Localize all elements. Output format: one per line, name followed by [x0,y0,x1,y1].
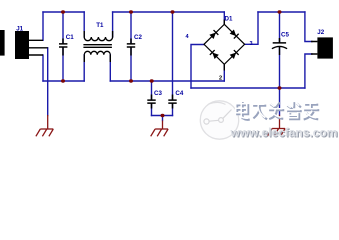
svg-text:C3: C3 [154,90,162,97]
wire C3 vertical top [151,81,153,100]
svg-text:J1: J1 [16,25,23,32]
wire J1 pin3 drop [42,55,44,81]
wire top bus C [258,11,305,13]
diode top-left [209,30,218,39]
wire C3 vertical bottom [151,103,153,115]
bridge rectifier D1 [186,16,253,82]
wire T1 primary bottom lead [83,55,85,81]
svg-text:T1: T1 [96,22,104,29]
wire ground rail [191,87,305,89]
wire ground2 stem blue [162,116,164,121]
wire C5 vertical bottom [279,48,281,115]
wire C1 vertical top [62,12,64,44]
transformer T1 [83,31,112,62]
capacitor C5 polarized [272,31,290,55]
wire J1 pin1 riser [42,12,44,40]
capacitor C1 [59,34,74,56]
watermark logo circle [200,101,238,139]
node bus A / C1 [61,10,65,13]
ground 2 (under C3 C4) [151,121,168,137]
connector J2 [311,29,333,59]
wire T1 primary top lead [83,12,85,37]
wire C4 vertical bottom [172,103,174,115]
ground 3 (under C5) [268,115,285,136]
wire C2 vertical bottom [130,47,132,81]
watermark url text [230,125,339,140]
wire ground1 stem blue [47,81,49,116]
wire C5 vertical top [279,12,281,43]
diode top-right [229,29,238,38]
wire bridge bottom drop [223,64,225,81]
wire bridge left stub riser [191,45,204,89]
wire C2 vertical top [130,12,132,44]
wire C3 C4 bottom join [152,115,173,117]
wire T1 secondary top lead riser [112,12,114,37]
wire J2 pin2 return [305,54,312,88]
wire bottom bus middle [110,80,224,82]
svg-text:C5: C5 [281,31,289,38]
wire top bus A [43,11,84,13]
svg-text:C4: C4 [175,90,183,97]
wire J2 pin1 feed [305,12,312,42]
wire bridge right stub [245,12,258,44]
node rail / C5 [278,86,282,89]
capacitor C2 [127,34,143,56]
node bottom bus / C2 [129,79,133,82]
svg-text:J2: J2 [317,29,324,36]
node bus C / C5 [278,10,282,13]
watermark text dianzifashaoyou (faux glyph strokes) [236,102,319,120]
wire C4 vertical from top bus [172,12,174,100]
connector J1 [15,25,48,59]
scan artifact bar left edge [0,30,5,56]
diode bottom-right [229,50,238,59]
svg-text:2: 2 [219,76,222,82]
svg-text:3: 3 [250,41,253,47]
node bus B / C4 [171,10,175,13]
wire bridge top feed [223,12,225,24]
junction node dots [61,10,282,117]
node bottom bus / C3 [150,79,154,82]
capacitor C3 [147,90,162,109]
ground 1 (left, earth) [36,115,53,136]
node bottom bus / C1 [61,79,65,82]
diode bottom-left [210,50,219,59]
wire J1 pin2 drop [47,48,49,81]
wire T1 secondary bottom lead [109,55,111,81]
svg-text:C1: C1 [66,34,74,41]
svg-text:D1: D1 [225,16,233,23]
capacitor C4 [168,90,184,109]
node C3 C4 join / ground2 [161,114,165,117]
node bus B / C2 [129,10,133,13]
wire C1 vertical bottom [62,47,64,81]
svg-text:www.elecfans.com: www.elecfans.com [230,125,338,139]
wire top bus B [113,11,225,13]
svg-text:C2: C2 [134,34,142,41]
wire bottom bus left [43,80,84,82]
